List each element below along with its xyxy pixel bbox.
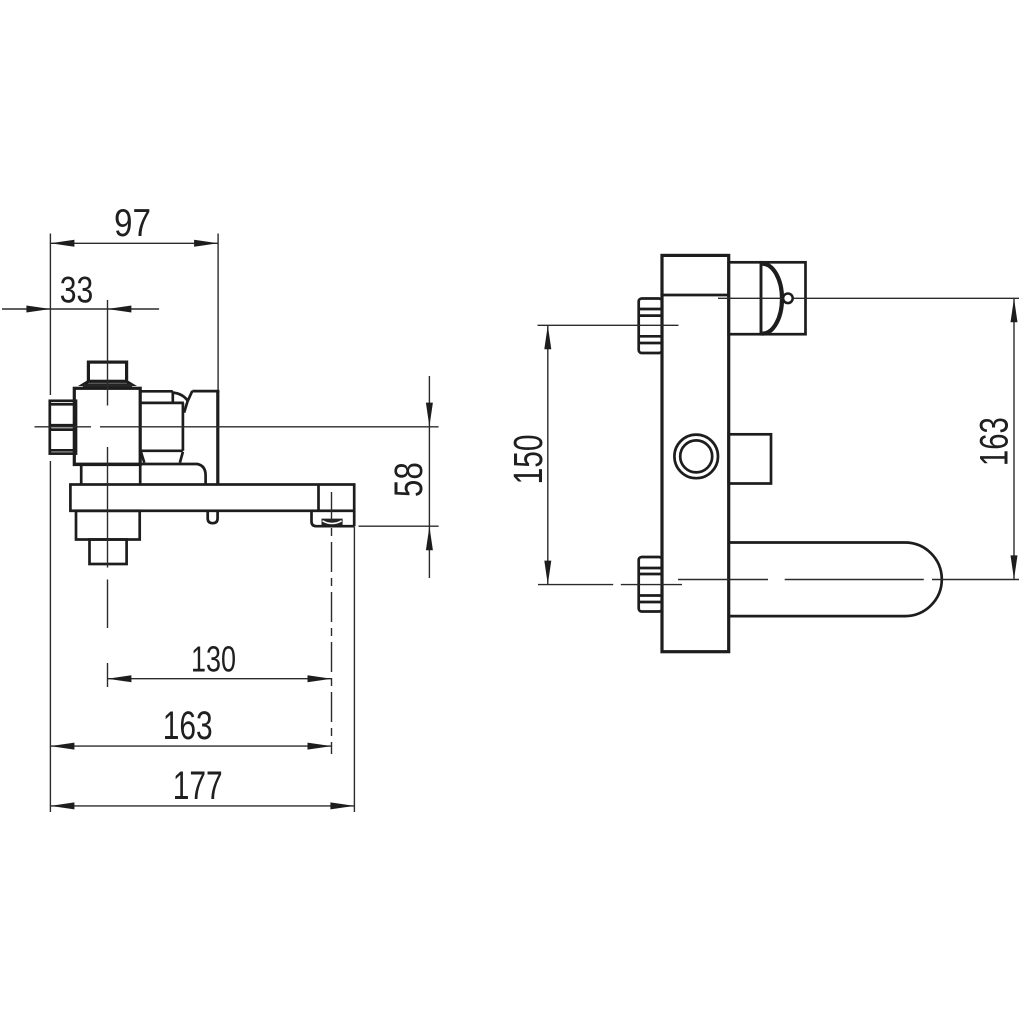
svg-text:163: 163 [972, 417, 1016, 466]
svg-text:177: 177 [173, 764, 223, 808]
svg-text:163: 163 [163, 704, 213, 748]
svg-text:97: 97 [114, 202, 151, 245]
svg-text:58: 58 [387, 462, 431, 497]
svg-text:33: 33 [60, 270, 94, 311]
svg-text:130: 130 [191, 639, 236, 680]
svg-text:150: 150 [505, 434, 551, 484]
